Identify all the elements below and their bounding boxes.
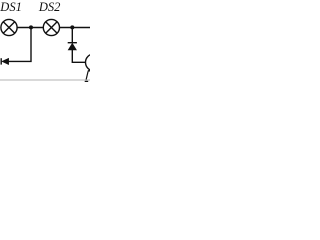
lamp DS3 (partial at right edge) [86,54,103,71]
wire left branch (down from A, left to diode) [9,28,32,62]
wire right branch upper (down from B) [71,28,73,43]
node junction B [70,25,74,29]
node junction A [29,25,33,29]
wire right branch lower (down, right to lamp DS3) [72,50,85,63]
diode VD1 pointing left [1,58,8,64]
svg-text:DS1: DS1 [0,0,22,14]
diode VD2 pointing up [68,43,77,50]
svg-text:DS2: DS2 [38,0,61,14]
lamp DS2 [43,19,59,35]
label DS3 (partial letter D at right edge) [85,71,90,82]
lamp DS1 [1,19,17,35]
wire top right [60,27,91,29]
wire top middle [17,27,43,29]
gray rule [0,79,90,81]
